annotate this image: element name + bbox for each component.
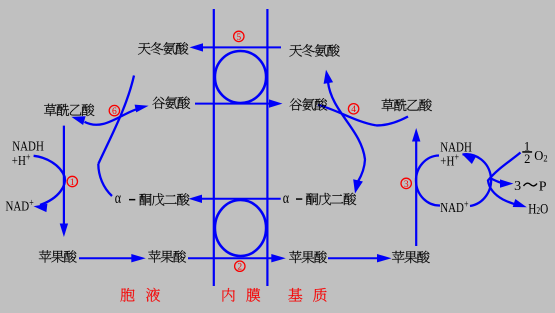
label NAD+ (cytosol)	[6, 198, 34, 214]
label malate (matrix right)	[392, 251, 430, 263]
circled number 3	[401, 178, 411, 190]
malate arrow (matrix malate to malate)	[328, 254, 392, 262]
circled number 1	[67, 176, 77, 188]
label aspartate (cytosol)	[138, 42, 188, 55]
svg-text:NADH: NADH	[12, 138, 44, 154]
reaction 4 substrate curve: glutamate over to oxaloacetate	[318, 105, 408, 126]
label oxaloacetate (cytosol)	[44, 104, 94, 116]
aspartate transport line (matrix to cytosol)	[190, 43, 282, 51]
circled number 5	[234, 31, 244, 43]
label cytosol (red)	[121, 288, 161, 302]
label NAD+ (matrix)	[440, 200, 468, 216]
label malate (cytosol left)	[39, 250, 77, 262]
svg-text:4: 4	[351, 105, 356, 115]
label glutamate (matrix)	[290, 98, 328, 110]
reaction 1 arrow: oxaloacetate to malate (cytosol)	[60, 126, 68, 237]
svg-text:2: 2	[524, 152, 530, 166]
circled number 4	[348, 104, 358, 116]
label +H+ (cytosol)	[12, 153, 31, 169]
label 3~P	[514, 179, 547, 194]
membrane inner line (left)	[213, 9, 215, 286]
label matrix (red)	[288, 288, 326, 302]
label +H+ (matrix)	[440, 153, 459, 169]
glutamate transport line (cytosol to matrix)	[195, 99, 283, 107]
svg-text:3: 3	[514, 179, 521, 194]
label malate (cytosol right)	[148, 250, 186, 262]
reaction 4 product curve: arrows to aspartate and alpha-ketoglutarate	[324, 70, 365, 194]
svg-text:P: P	[539, 179, 547, 194]
reaction 6 substrate curve: aspartate down to alpha-ketoglutarate	[98, 76, 134, 197]
label inner membrane (red)	[223, 288, 261, 302]
reaction 1 NADH-to-NAD+ arc	[34, 156, 65, 212]
respiratory chain arrow to 3~P	[491, 179, 514, 188]
svg-text:6: 6	[112, 107, 117, 117]
label oxaloacetate (matrix)	[382, 99, 432, 111]
svg-text:α: α	[115, 190, 122, 208]
svg-text:5: 5	[236, 33, 241, 43]
malate transport line (cytosol to matrix)	[188, 254, 286, 262]
svg-text:α: α	[283, 189, 290, 207]
svg-text:3: 3	[404, 180, 409, 190]
label NADH (matrix)	[440, 139, 472, 155]
label NADH (cytosol)	[12, 138, 44, 154]
transporter circle (malate-alpha-ketoglutarate carrier)	[215, 200, 266, 256]
malate arrow (cytosol malate to malate)	[79, 254, 146, 262]
label aspartate (matrix)	[289, 44, 339, 57]
alpha-ketoglutarate transport line (matrix to cytosol)	[189, 195, 281, 203]
respiratory chain curve: half-O2 to H2O	[488, 153, 527, 208]
circled number 2	[235, 261, 245, 273]
reaction 3 arrow: malate to oxaloacetate (matrix)	[412, 128, 420, 246]
reaction 3 NAD+-to-NADH arc (right half)	[462, 154, 491, 206]
membrane inner line (right)	[266, 9, 268, 286]
label alpha-ketoglutarate (cytosol)	[115, 190, 190, 208]
transporter circle (aspartate-glutamate carrier)	[215, 51, 266, 103]
circled number 6	[109, 105, 119, 117]
label malate (matrix left)	[289, 251, 327, 263]
svg-text:1: 1	[70, 178, 75, 188]
label glutamate (cytosol)	[152, 96, 190, 108]
label 1/2 O2	[522, 140, 548, 166]
label H2O	[528, 200, 548, 217]
label alpha-ketoglutarate (matrix)	[283, 189, 356, 207]
reaction 6 product curve: arrows to oxaloacetate and glutamate	[71, 105, 148, 125]
reaction 3 NAD arc (left half)	[416, 156, 440, 206]
svg-text:2: 2	[237, 263, 242, 273]
